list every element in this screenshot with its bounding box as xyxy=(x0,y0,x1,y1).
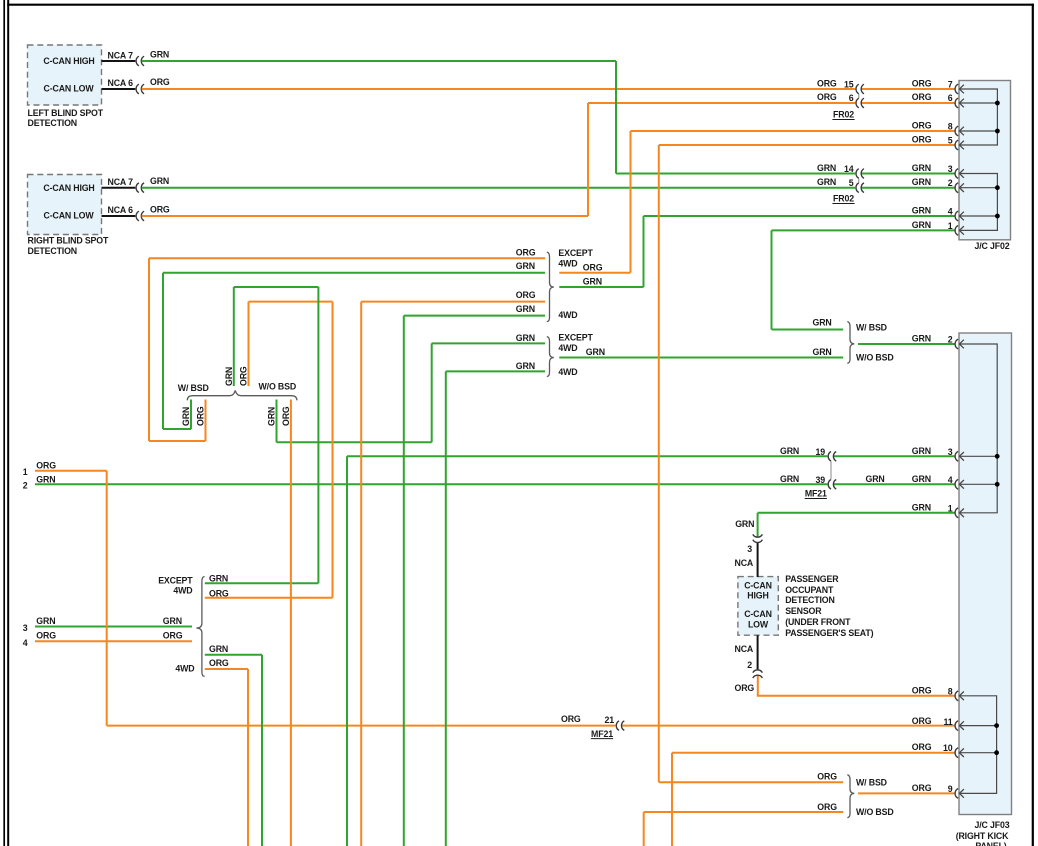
svg-text:ORG: ORG xyxy=(912,742,932,752)
svg-text:ORG: ORG xyxy=(209,588,229,598)
svg-text:GRN: GRN xyxy=(817,163,836,173)
svg-text:2: 2 xyxy=(948,335,953,345)
svg-text:(RIGHT KICK: (RIGHT KICK xyxy=(956,831,1009,841)
svg-text:GRN: GRN xyxy=(36,616,55,626)
svg-text:LOW: LOW xyxy=(748,619,769,629)
svg-text:GRN: GRN xyxy=(163,616,182,626)
svg-text:39: 39 xyxy=(816,475,826,485)
svg-text:GRN: GRN xyxy=(583,276,602,286)
svg-text:W/O BSD: W/O BSD xyxy=(259,382,297,392)
svg-text:GRN: GRN xyxy=(912,334,931,344)
svg-text:GRN: GRN xyxy=(735,519,754,529)
svg-text:ORG: ORG xyxy=(196,406,206,426)
svg-text:GRN: GRN xyxy=(516,304,535,314)
svg-text:C-CAN LOW: C-CAN LOW xyxy=(44,84,95,94)
svg-text:ORG: ORG xyxy=(817,79,837,89)
svg-text:GRN: GRN xyxy=(780,474,799,484)
svg-text:ORG: ORG xyxy=(817,802,837,812)
svg-text:21: 21 xyxy=(605,715,615,725)
svg-text:W/ BSD: W/ BSD xyxy=(856,777,887,787)
svg-text:GRN: GRN xyxy=(813,347,832,357)
svg-text:GRN: GRN xyxy=(912,177,931,187)
svg-text:4WD: 4WD xyxy=(173,586,192,596)
svg-text:J/C JF02: J/C JF02 xyxy=(975,241,1010,251)
svg-text:GRN: GRN xyxy=(516,333,535,343)
svg-text:ORG: ORG xyxy=(912,685,932,695)
svg-text:DETECTION: DETECTION xyxy=(785,595,834,605)
svg-text:W/ BSD: W/ BSD xyxy=(856,323,887,333)
svg-text:3: 3 xyxy=(23,623,28,633)
svg-text:NCA 6: NCA 6 xyxy=(108,205,134,215)
svg-text:NCA: NCA xyxy=(735,644,754,654)
svg-text:11: 11 xyxy=(944,717,953,727)
svg-text:ORG: ORG xyxy=(735,683,755,693)
svg-text:ORG: ORG xyxy=(912,716,932,726)
svg-text:NCA 7: NCA 7 xyxy=(108,177,134,187)
svg-text:GRN: GRN xyxy=(912,206,931,216)
svg-text:EXCEPT: EXCEPT xyxy=(158,576,193,586)
svg-text:FR02: FR02 xyxy=(833,194,854,204)
svg-text:W/O BSD: W/O BSD xyxy=(856,353,894,363)
svg-text:GRN: GRN xyxy=(516,261,535,271)
svg-text:RIGHT BLIND SPOT: RIGHT BLIND SPOT xyxy=(28,236,109,246)
svg-text:ORG: ORG xyxy=(912,121,932,131)
svg-text:C-CAN HIGH: C-CAN HIGH xyxy=(43,56,94,66)
svg-text:NCA 6: NCA 6 xyxy=(108,78,134,88)
svg-text:2: 2 xyxy=(23,481,28,491)
svg-text:LEFT BLIND SPOT: LEFT BLIND SPOT xyxy=(28,108,104,118)
svg-text:19: 19 xyxy=(816,447,826,457)
svg-text:5: 5 xyxy=(948,136,953,146)
svg-text:PASSENGER: PASSENGER xyxy=(785,574,839,584)
svg-text:4: 4 xyxy=(23,638,28,648)
svg-text:GRN: GRN xyxy=(516,361,535,371)
svg-text:ORG: ORG xyxy=(912,783,932,793)
svg-text:MF21: MF21 xyxy=(805,489,827,499)
svg-text:GRN: GRN xyxy=(224,367,234,386)
svg-text:GRN: GRN xyxy=(36,474,55,484)
svg-text:1: 1 xyxy=(948,221,953,231)
svg-text:6: 6 xyxy=(849,93,854,103)
svg-text:10: 10 xyxy=(943,743,953,753)
svg-text:4WD: 4WD xyxy=(558,310,577,320)
svg-text:ORG: ORG xyxy=(239,366,249,386)
svg-text:4WD: 4WD xyxy=(558,343,577,353)
svg-text:GRN: GRN xyxy=(209,644,228,654)
svg-text:NCA: NCA xyxy=(735,558,754,568)
svg-text:4WD: 4WD xyxy=(558,259,577,269)
svg-text:3: 3 xyxy=(948,447,953,457)
svg-text:GRN: GRN xyxy=(267,407,277,426)
svg-text:2: 2 xyxy=(747,660,752,670)
svg-text:1: 1 xyxy=(23,467,28,477)
svg-text:ORG: ORG xyxy=(163,630,183,640)
svg-text:GRN: GRN xyxy=(209,574,228,584)
svg-text:ORG: ORG xyxy=(516,290,536,300)
svg-text:6: 6 xyxy=(948,93,953,103)
svg-text:ORG: ORG xyxy=(150,205,170,215)
svg-text:GRN: GRN xyxy=(866,474,885,484)
svg-text:C-CAN: C-CAN xyxy=(744,580,772,590)
svg-text:C-CAN LOW: C-CAN LOW xyxy=(44,211,95,221)
svg-text:HIGH: HIGH xyxy=(747,591,768,601)
svg-text:GRN: GRN xyxy=(586,347,605,357)
svg-text:GRN: GRN xyxy=(912,446,931,456)
svg-text:7: 7 xyxy=(948,80,953,90)
svg-text:GRN: GRN xyxy=(813,318,832,328)
svg-text:14: 14 xyxy=(844,164,854,174)
svg-text:ORG: ORG xyxy=(561,714,581,724)
svg-text:GRN: GRN xyxy=(912,163,931,173)
svg-text:ORG: ORG xyxy=(150,77,170,87)
svg-text:W/ BSD: W/ BSD xyxy=(178,383,209,393)
svg-text:ORG: ORG xyxy=(912,92,932,102)
svg-text:ORG: ORG xyxy=(516,248,536,258)
svg-text:ORG: ORG xyxy=(817,92,837,102)
svg-text:ORG: ORG xyxy=(36,461,56,471)
svg-text:SENSOR: SENSOR xyxy=(785,606,822,616)
svg-text:ORG: ORG xyxy=(209,658,229,668)
svg-text:GRN: GRN xyxy=(912,503,931,513)
svg-text:GRN: GRN xyxy=(150,50,169,60)
svg-text:GRN: GRN xyxy=(817,177,836,187)
svg-text:8: 8 xyxy=(948,122,953,132)
svg-text:4WD: 4WD xyxy=(175,664,194,674)
svg-text:FR02: FR02 xyxy=(833,110,854,120)
svg-text:2: 2 xyxy=(948,178,953,188)
svg-text:ORG: ORG xyxy=(583,263,603,273)
svg-text:3: 3 xyxy=(747,544,752,554)
svg-text:ORG: ORG xyxy=(36,630,56,640)
svg-text:EXCEPT: EXCEPT xyxy=(558,248,593,258)
svg-text:W/O BSD: W/O BSD xyxy=(856,807,894,817)
svg-text:GRN: GRN xyxy=(780,446,799,456)
svg-text:OCCUPANT: OCCUPANT xyxy=(785,585,834,595)
svg-text:4: 4 xyxy=(948,475,953,485)
svg-text:(UNDER FRONT: (UNDER FRONT xyxy=(785,617,851,627)
svg-text:ORG: ORG xyxy=(817,772,837,782)
svg-text:DETECTION: DETECTION xyxy=(28,118,77,128)
svg-text:3: 3 xyxy=(948,164,953,174)
svg-text:15: 15 xyxy=(844,80,854,90)
svg-text:4WD: 4WD xyxy=(558,367,577,377)
svg-text:NCA 7: NCA 7 xyxy=(108,51,134,61)
svg-text:C-CAN HIGH: C-CAN HIGH xyxy=(43,183,94,193)
svg-text:GRN: GRN xyxy=(912,220,931,230)
svg-text:ORG: ORG xyxy=(912,135,932,145)
svg-text:ORG: ORG xyxy=(912,79,932,89)
svg-text:MF21: MF21 xyxy=(591,729,613,739)
svg-text:EXCEPT: EXCEPT xyxy=(558,332,593,342)
svg-text:8: 8 xyxy=(948,686,953,696)
svg-text:J/C JF03: J/C JF03 xyxy=(975,820,1010,830)
svg-text:GRN: GRN xyxy=(150,176,169,186)
svg-text:GRN: GRN xyxy=(181,407,191,426)
svg-text:GRN: GRN xyxy=(912,474,931,484)
svg-text:PANEL): PANEL) xyxy=(975,841,1006,846)
svg-text:1: 1 xyxy=(948,504,953,514)
svg-text:5: 5 xyxy=(849,178,854,188)
svg-text:ORG: ORG xyxy=(281,406,291,426)
svg-text:DETECTION: DETECTION xyxy=(28,246,77,256)
svg-text:C-CAN: C-CAN xyxy=(744,609,772,619)
svg-text:9: 9 xyxy=(948,784,953,794)
svg-text:PASSENGER'S SEAT): PASSENGER'S SEAT) xyxy=(785,628,873,638)
svg-text:4: 4 xyxy=(948,207,953,217)
